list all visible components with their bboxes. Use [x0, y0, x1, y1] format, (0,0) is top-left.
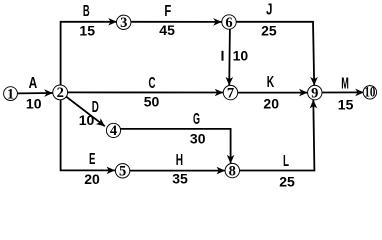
label I	[222, 51, 224, 61]
svg-text:E: E	[89, 151, 96, 168]
wire F: node3 to node6	[131, 21, 221, 23]
svg-text:45: 45	[159, 22, 175, 38]
svg-text:4: 4	[110, 123, 117, 139]
node 10	[363, 86, 376, 99]
svg-text:3: 3	[120, 15, 127, 31]
node 2	[53, 85, 68, 100]
wire L: node8 right then up to node9	[240, 100, 315, 171]
node 4	[106, 123, 120, 137]
svg-text:9: 9	[311, 85, 318, 101]
wire M: node9 to node10	[322, 91, 364, 93]
svg-text:6: 6	[225, 15, 232, 31]
svg-text:15: 15	[79, 23, 95, 39]
svg-text:K: K	[267, 74, 275, 91]
wire H: node5 to node8	[130, 170, 225, 172]
svg-text:1: 1	[7, 86, 14, 102]
node 8	[225, 163, 239, 177]
svg-text:7: 7	[227, 85, 234, 101]
svg-text:M: M	[341, 76, 349, 93]
svg-text:25: 25	[279, 173, 295, 189]
wire E: node2 down then right to node5	[61, 99, 115, 170]
svg-text:L: L	[283, 153, 289, 170]
node 1	[4, 87, 18, 101]
svg-text:F: F	[164, 3, 171, 20]
node 7	[223, 85, 237, 99]
svg-text:30: 30	[190, 130, 206, 146]
svg-text:15: 15	[338, 97, 354, 113]
wire G: node4 right then down to node8	[120, 129, 230, 163]
svg-text:20: 20	[263, 96, 279, 112]
node 6	[222, 15, 236, 29]
svg-text:C: C	[149, 75, 156, 92]
svg-text:H: H	[176, 152, 183, 169]
svg-text:35: 35	[172, 171, 188, 187]
svg-text:10: 10	[26, 95, 42, 111]
wire K: node7 to node9	[238, 92, 308, 94]
svg-text:A: A	[29, 75, 38, 92]
svg-text:20: 20	[84, 171, 100, 187]
svg-text:G: G	[193, 111, 200, 128]
node 3	[117, 15, 131, 29]
wire I: node6 down to node7	[228, 29, 231, 85]
svg-text:J: J	[266, 2, 272, 19]
wire D: node2 diagonal to node4	[66, 97, 105, 127]
svg-text:10: 10	[79, 112, 95, 128]
svg-text:50: 50	[144, 93, 160, 109]
svg-text:10: 10	[364, 84, 375, 100]
node 5	[115, 164, 129, 178]
wire B: node2 up and right to node3	[61, 22, 117, 86]
svg-text:5: 5	[119, 164, 126, 180]
node 9	[308, 85, 322, 99]
wire C: node2 to node7	[67, 91, 223, 93]
svg-text:2: 2	[57, 85, 64, 101]
svg-text:8: 8	[229, 163, 236, 179]
svg-text:25: 25	[261, 23, 277, 39]
svg-text:10: 10	[233, 48, 249, 64]
wire A: node1 to node2	[18, 92, 53, 94]
wire J: node6 right then down to node9	[236, 22, 314, 86]
svg-text:B: B	[83, 3, 90, 20]
